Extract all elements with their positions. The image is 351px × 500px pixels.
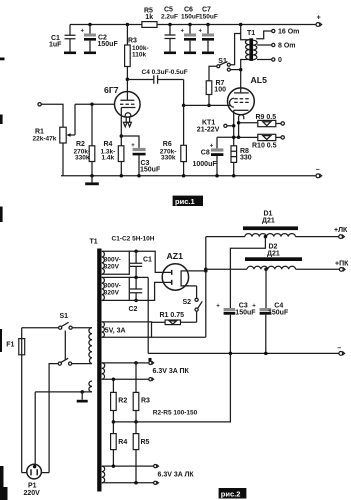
svg-text:330k: 330k xyxy=(161,155,176,162)
resistor R2 xyxy=(74,104,95,176)
svg-text:AZ1: AZ1 xyxy=(167,251,184,261)
svg-text:2.2uF: 2.2uF xyxy=(161,14,178,21)
terminal 6.3V PK bottom xyxy=(149,378,154,381)
svg-text:R10 0.5: R10 0.5 xyxy=(252,142,277,149)
tube AL5 xyxy=(228,75,268,120)
svg-text:–: – xyxy=(316,166,320,173)
svg-text:0: 0 xyxy=(278,57,282,64)
svg-text:C7: C7 xyxy=(202,6,211,13)
svg-text:6Г7: 6Г7 xyxy=(104,85,119,95)
node R9 xyxy=(237,121,241,125)
svg-text:+: + xyxy=(252,304,256,310)
choke D2 xyxy=(206,244,340,270)
svg-text:C2: C2 xyxy=(129,306,138,313)
svg-text:1000uF: 1000uF xyxy=(193,161,218,168)
svg-text:D1: D1 xyxy=(264,211,273,218)
node R5 bottom xyxy=(134,481,138,485)
resistor R5 fig2 xyxy=(133,422,149,483)
svg-text:R2: R2 xyxy=(118,397,127,404)
wire center tap riser xyxy=(147,277,149,353)
svg-text:+: + xyxy=(317,15,321,22)
node C5-rail xyxy=(168,23,172,27)
svg-text:R6: R6 xyxy=(163,141,172,148)
label ris.1 xyxy=(173,196,203,206)
node cathode 6G7 xyxy=(120,134,124,138)
node R4-rail xyxy=(120,174,124,178)
wire C4 down to grid node xyxy=(183,80,185,106)
wire T1 primary bottom to anode xyxy=(241,60,250,93)
transformer T1 xyxy=(245,30,257,61)
svg-text:Д21: Д21 xyxy=(267,251,280,258)
node C3-rail xyxy=(229,352,233,356)
svg-text:C1-C2 5H-10H: C1-C2 5H-10H xyxy=(112,235,155,242)
svg-text:рис.2: рис.2 xyxy=(221,489,241,498)
resistor R5 xyxy=(142,7,157,27)
svg-text:R2-R5 100-150: R2-R5 100-150 xyxy=(153,410,198,417)
node C1 top xyxy=(134,250,138,254)
wire grid 6G7 xyxy=(75,103,115,105)
terminal input xyxy=(38,103,41,106)
node shield ground xyxy=(80,390,84,394)
wire cathode leg xyxy=(233,110,235,146)
resistor R2 fig2 xyxy=(111,379,128,422)
svg-text:22k-47k: 22k-47k xyxy=(33,135,57,142)
svg-text:+: + xyxy=(81,29,85,35)
capacitor C3 fig2 xyxy=(216,303,256,354)
node C7-rail xyxy=(206,23,210,27)
wire cathode horizontal xyxy=(217,136,239,138)
svg-text:150uF: 150uF xyxy=(98,41,119,48)
ground xyxy=(85,176,99,185)
svg-text:S1: S1 xyxy=(60,313,69,320)
svg-text:R4: R4 xyxy=(118,439,127,446)
winding 6.3V PK xyxy=(102,363,149,379)
resistor R9 xyxy=(239,114,285,127)
wire D2 to C4 xyxy=(265,269,267,308)
wire input to R1 xyxy=(41,104,63,127)
node C2-rail xyxy=(88,23,92,27)
winding HV 1 xyxy=(102,251,130,274)
node plug top xyxy=(33,465,37,469)
wire neutral to plug xyxy=(34,392,36,466)
svg-text:T1: T1 xyxy=(247,30,255,37)
svg-text:S2: S2 xyxy=(183,299,192,306)
wire S1 upper to B+ xyxy=(230,34,240,65)
svg-text:110k: 110k xyxy=(132,51,146,58)
svg-text:+: + xyxy=(216,304,220,310)
svg-text:–: – xyxy=(337,345,341,352)
svg-text:+: + xyxy=(131,143,135,149)
winding primary xyxy=(72,328,92,364)
capacitor C1 xyxy=(49,25,76,55)
svg-text:150uF: 150uF xyxy=(199,14,218,21)
transformer T1 core xyxy=(90,239,102,492)
switch S1 xyxy=(217,58,231,71)
node R3-rail xyxy=(126,23,129,27)
svg-text:C8: C8 xyxy=(201,150,210,157)
svg-text:T1: T1 xyxy=(90,239,98,246)
node R2 top xyxy=(112,377,116,381)
svg-text:R9 0.5: R9 0.5 xyxy=(256,114,277,121)
node R7-grid xyxy=(207,104,211,108)
node R3 top xyxy=(134,361,138,365)
node C8-rail xyxy=(215,174,219,178)
node R2-rail xyxy=(90,174,94,178)
svg-text:320V: 320V xyxy=(104,263,120,270)
svg-text:рис.1: рис.1 xyxy=(175,197,195,206)
winding shield xyxy=(35,381,92,392)
wire ground rail xyxy=(61,175,313,177)
svg-text:AL5: AL5 xyxy=(251,75,268,85)
node R8-rail xyxy=(232,174,236,178)
svg-text:+ПК: +ПК xyxy=(335,261,349,268)
node R4 bottom xyxy=(112,464,116,468)
capacitor C4 xyxy=(127,69,187,84)
svg-text:C5: C5 xyxy=(164,6,173,13)
svg-text:+: + xyxy=(199,29,203,35)
node grid AL5 xyxy=(182,104,186,108)
wire HV center tap xyxy=(129,276,148,278)
svg-text:5V, 3A: 5V, 3A xyxy=(105,328,126,335)
tube 6G7 xyxy=(104,79,140,127)
capacitor C8 xyxy=(193,137,224,176)
capacitor C5 xyxy=(161,6,178,54)
terminal 6.3V LK bottom xyxy=(154,481,159,484)
wire filament top to B+ xyxy=(189,270,206,272)
wire B+ rail right xyxy=(157,24,313,26)
svg-text:1uF: 1uF xyxy=(49,42,62,49)
resistor R4 fig2 xyxy=(111,422,128,466)
capacitor C2 xyxy=(81,25,119,55)
svg-text:6.3V 3A ПК: 6.3V 3A ПК xyxy=(153,368,190,375)
wire S1 lower to plug xyxy=(41,364,58,473)
resistor R7 xyxy=(206,66,226,105)
node R10 branch xyxy=(237,136,241,140)
wire F1 to plug xyxy=(22,355,27,473)
potentiometer R1 xyxy=(33,104,76,176)
capacitor C3 xyxy=(121,136,161,176)
svg-text:330: 330 xyxy=(240,155,252,162)
terminal 6.3V PK top xyxy=(149,361,154,364)
node R2R4 mid xyxy=(112,420,116,424)
node C6-rail xyxy=(188,23,192,27)
wire grid AL5 xyxy=(184,104,231,106)
terminal +PK xyxy=(335,261,349,272)
svg-text:330k: 330k xyxy=(75,155,90,162)
capacitor C6 xyxy=(181,6,200,54)
svg-text:C3: C3 xyxy=(239,303,248,310)
terminal 6.3V LK top xyxy=(154,465,159,468)
svg-text:+: + xyxy=(181,29,185,35)
svg-text:KT1: KT1 xyxy=(202,119,215,126)
wire secondary tap 0 xyxy=(257,57,282,64)
node T1-rail xyxy=(239,23,243,27)
switch S2 xyxy=(183,286,203,322)
resistor R3 fig2 xyxy=(133,363,150,422)
ground fig2 xyxy=(77,392,88,403)
resistor R4 xyxy=(101,108,124,176)
node R3R5 mid xyxy=(134,420,138,424)
node C2 bottom xyxy=(134,299,138,303)
node C1-C2 center xyxy=(134,276,138,280)
wire T1 primary top xyxy=(241,25,250,40)
choke D1 xyxy=(206,211,339,237)
scan artifacts left edge xyxy=(0,58,8,500)
capacitor C7 xyxy=(199,6,218,54)
fuse F1 xyxy=(6,328,58,355)
svg-text:220V: 220V xyxy=(24,490,41,497)
node R6-rail xyxy=(182,174,186,178)
resistor R3 xyxy=(125,25,149,80)
tube AZ1 xyxy=(162,251,189,290)
winding 6.3V LK xyxy=(102,466,154,483)
svg-text:21-22V: 21-22V xyxy=(197,127,220,134)
svg-text:C4: C4 xyxy=(274,303,283,310)
svg-text:R1 0.75: R1 0.75 xyxy=(160,312,185,319)
node filament B+ xyxy=(204,269,208,273)
svg-text:F1: F1 xyxy=(6,342,14,349)
svg-text:150uF: 150uF xyxy=(235,310,256,317)
svg-text:R4: R4 xyxy=(104,141,113,148)
svg-text:R3: R3 xyxy=(128,38,137,45)
svg-text:150uF: 150uF xyxy=(140,167,161,174)
svg-text:C4 0.3uF-0.5uF: C4 0.3uF-0.5uF xyxy=(142,69,188,76)
svg-text:Д21: Д21 xyxy=(262,218,275,225)
label ris.2 xyxy=(219,488,247,499)
resistor R6 xyxy=(160,105,187,175)
svg-text:D2: D2 xyxy=(269,244,278,251)
node KT1 xyxy=(232,124,236,128)
node C4-rail xyxy=(264,352,268,356)
svg-text:16 Om: 16 Om xyxy=(278,29,299,36)
switch S1 fig2 xyxy=(58,313,72,365)
capacitor C2 fig2 xyxy=(129,277,143,312)
resistor R8 xyxy=(231,146,252,176)
svg-text:R2: R2 xyxy=(76,141,85,148)
wire HV2 bottom to anode xyxy=(129,282,171,300)
wire humdinger riser xyxy=(113,353,230,422)
resistor R10 xyxy=(239,134,285,149)
terminal KT1 xyxy=(197,119,234,133)
svg-text:+ЛК: +ЛК xyxy=(334,227,348,234)
node C8 branch xyxy=(232,136,236,140)
svg-text:+: + xyxy=(210,144,214,150)
scan speck xyxy=(149,358,152,361)
svg-text:C1: C1 xyxy=(143,257,152,264)
node R2-grid xyxy=(90,103,94,107)
wire secondary tap 8 Om xyxy=(257,43,295,50)
node S1-anode xyxy=(239,68,243,72)
winding HV 2 xyxy=(102,277,130,300)
plug P1 xyxy=(24,464,42,497)
winding 5V xyxy=(102,322,152,337)
wire D1 to C3 xyxy=(230,237,265,308)
node C3-rail xyxy=(137,174,141,178)
capacitor C1 fig2 xyxy=(130,251,152,277)
wire HV1 top to anode xyxy=(129,251,171,272)
svg-text:150uF: 150uF xyxy=(181,14,200,21)
terminal - fig2 xyxy=(337,345,344,355)
wire secondary tap 16 Om xyxy=(256,29,299,39)
terminal +LK xyxy=(334,227,348,239)
node anode 6G7 xyxy=(126,78,129,82)
svg-text:1.4k: 1.4k xyxy=(102,155,115,162)
terminal + xyxy=(313,15,322,27)
wire B+ riser xyxy=(152,237,206,338)
svg-text:1k: 1k xyxy=(145,14,153,21)
svg-text:8 Om: 8 Om xyxy=(278,43,296,50)
svg-text:150uF: 150uF xyxy=(268,310,289,317)
resistor R1 fig2 xyxy=(152,312,197,324)
svg-text:P1: P1 xyxy=(28,483,37,490)
svg-text:C6: C6 xyxy=(184,6,193,13)
svg-text:6.3V 3A ЛК: 6.3V 3A ЛК xyxy=(158,472,195,479)
node D1 to C3 xyxy=(264,235,268,239)
svg-text:100: 100 xyxy=(214,87,226,94)
wire heater leg xyxy=(238,120,240,137)
wire S1 lower to anode xyxy=(230,69,240,71)
svg-text:320V: 320V xyxy=(104,289,120,296)
terminal - fig1 xyxy=(313,166,322,177)
svg-text:R5: R5 xyxy=(141,439,150,446)
capacitor C4 fig2 xyxy=(252,303,289,354)
svg-text:R3: R3 xyxy=(141,397,150,404)
node D2 feed xyxy=(204,268,208,272)
wire minus rail xyxy=(148,352,339,354)
node D2 to C4 xyxy=(264,268,268,272)
wire B+ rail left xyxy=(70,24,142,26)
